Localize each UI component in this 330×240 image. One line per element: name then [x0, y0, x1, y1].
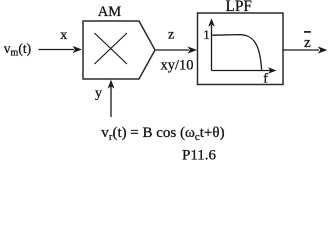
svg-text:x: x [60, 28, 67, 43]
svg-text:xy/10: xy/10 [161, 57, 194, 73]
wire input x [39, 46, 83, 53]
svg-text:vm(t): vm(t) [4, 41, 31, 59]
wire output z-bar [283, 46, 327, 53]
LPF response curve [212, 35, 261, 70]
svg-text:f: f [263, 72, 268, 87]
LPF graph x-axis [212, 67, 277, 74]
wire carrier input y (vertical arrow) [108, 80, 115, 117]
multiplier block AM (pentagon) [83, 21, 155, 79]
svg-text:AM: AM [98, 4, 121, 20]
svg-text:z: z [168, 28, 174, 43]
svg-text:z: z [304, 35, 311, 51]
svg-text:P11.6: P11.6 [182, 148, 217, 164]
carrier equation vr(t) = B cos(wc t + theta) [101, 125, 224, 143]
svg-text:1: 1 [203, 27, 210, 42]
multiplier X symbol [94, 33, 127, 64]
node z-bar label [304, 32, 311, 51]
filter block LPF [198, 13, 284, 85]
svg-text:=: = [130, 125, 138, 141]
svg-text:B cos (ωct+θ): B cos (ωct+θ) [143, 125, 225, 143]
svg-text:vr(t): vr(t) [101, 125, 126, 143]
input signal label vm(t) [4, 41, 31, 59]
svg-text:y: y [95, 86, 102, 101]
svg-text:LPF: LPF [226, 0, 252, 15]
wire z from multiplier to LPF [155, 46, 197, 53]
LPF graph y-axis [208, 18, 215, 70]
